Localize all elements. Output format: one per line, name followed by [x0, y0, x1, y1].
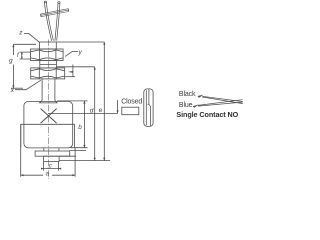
reed contact blades: [148, 89, 151, 126]
groove tick: [72, 65, 74, 77]
leader x: [15, 80, 41, 90]
svg-text:z: z: [18, 29, 23, 36]
leader z: [24, 33, 39, 42]
float bottom extension: [71, 147, 88, 149]
svg-text:d: d: [90, 108, 94, 115]
hex nut lower: [31, 68, 65, 79]
collar bottom extension: [59, 160, 110, 162]
svg-text:y: y: [78, 49, 83, 56]
spacer between nuts: [40, 61, 57, 68]
washer: [35, 151, 70, 156]
center mark X: [41, 109, 57, 124]
dim a extensions: [21, 125, 75, 177]
closed box: [122, 107, 139, 115]
wire right: [55, 3, 60, 41]
groove stub line: [65, 76, 75, 78]
wire needle black: [202, 96, 243, 103]
svg-text:b: b: [78, 124, 82, 131]
reed switch capsule: [144, 89, 153, 127]
bottom collar: [44, 156, 60, 161]
float neck: [44, 148, 59, 151]
svg-text:a: a: [46, 170, 50, 177]
leader y: [65, 51, 78, 56]
float mid seam: [20, 123, 74, 125]
reed inner wall: [145, 90, 147, 125]
hex nut upper: [31, 49, 64, 61]
dim e line: [103, 42, 105, 161]
svg-text:Black: Black: [179, 91, 196, 98]
svg-text:f: f: [17, 52, 20, 59]
dim b line: [83, 101, 85, 148]
float body: [24, 101, 73, 147]
centerline: [47, 40, 49, 180]
groove arrow: [68, 71, 73, 73]
wire left: [45, 2, 54, 41]
dim g line: [12, 44, 14, 88]
dim g extension top: [13, 43, 36, 45]
dim f line: [21, 52, 23, 59]
cable tie band: [41, 9, 69, 17]
top extension to e: [56, 41, 104, 43]
dim c line: [42, 168, 61, 170]
closed level line: [49, 113, 118, 115]
dim c extensions: [44, 162, 59, 171]
svg-text:Single Contact NO: Single Contact NO: [176, 110, 238, 119]
wire needle blue: [198, 100, 243, 106]
stem flange: [40, 100, 58, 103]
gland cap: [39, 42, 56, 49]
svg-text:e: e: [99, 107, 103, 114]
svg-text:Closed: Closed: [121, 98, 142, 105]
dim a line: [21, 174, 75, 176]
washer bottom extension: [59, 155, 76, 157]
closed pointer arrow: [117, 100, 119, 113]
svg-text:Blue: Blue: [179, 102, 193, 109]
stem tube: [42, 79, 55, 100]
float top extension to b: [57, 100, 88, 102]
svg-text:g: g: [9, 57, 13, 64]
dim d line: [94, 67, 96, 161]
float lower-half side lines: [21, 124, 75, 147]
dim g bottom tick: [11, 87, 23, 89]
extension stem bottom to d: [57, 66, 95, 68]
washer top extension: [70, 149, 86, 151]
dim f extensions: [20, 52, 31, 59]
